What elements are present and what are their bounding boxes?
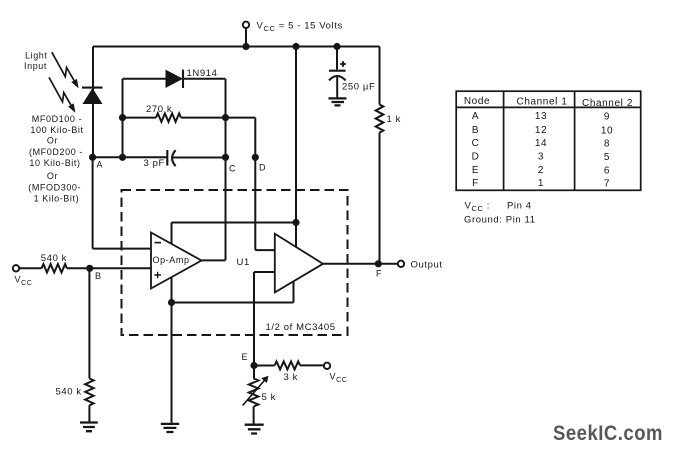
svg-text:D: D	[472, 152, 480, 163]
svg-text:(MFOD300-: (MFOD300-	[28, 183, 81, 193]
svg-text:Input: Input	[24, 61, 47, 71]
svg-text:3 k: 3 k	[284, 372, 298, 383]
svg-text:540 k: 540 k	[41, 253, 67, 264]
svg-text:F: F	[376, 269, 382, 279]
svg-text:1 Kilo-Bit): 1 Kilo-Bit)	[34, 193, 80, 203]
svg-text:SeekIC.com: SeekIC.com	[553, 421, 663, 445]
svg-text:9: 9	[604, 112, 610, 123]
svg-text:D: D	[259, 163, 266, 173]
svg-text:E: E	[242, 352, 249, 362]
svg-text:2: 2	[538, 165, 544, 176]
svg-text:(MF0D200 -: (MF0D200 -	[29, 147, 83, 157]
svg-text:270 k: 270 k	[146, 104, 172, 115]
svg-text:1: 1	[538, 178, 544, 189]
svg-text:5 k: 5 k	[262, 392, 276, 403]
svg-text:1N914: 1N914	[187, 68, 218, 79]
svg-text:C: C	[229, 164, 236, 174]
svg-text:C: C	[472, 138, 480, 149]
svg-text:Op-Amp: Op-Amp	[153, 255, 190, 265]
svg-text:Ground: Pin 11: Ground: Pin 11	[464, 215, 536, 226]
svg-text:Channel 2: Channel 2	[582, 98, 633, 109]
svg-text:10: 10	[601, 126, 613, 137]
svg-text:10 Kilo-Bit): 10 Kilo-Bit)	[29, 158, 80, 168]
svg-text:250 µF: 250 µF	[342, 82, 375, 93]
svg-text:A: A	[472, 111, 479, 122]
svg-text:6: 6	[604, 166, 610, 177]
svg-text:B: B	[472, 125, 479, 136]
svg-text:Light: Light	[25, 51, 48, 61]
svg-text:A: A	[97, 160, 104, 170]
svg-text:8: 8	[604, 139, 610, 150]
svg-text:MF0D100 -: MF0D100 -	[32, 114, 82, 124]
svg-text:1 k: 1 k	[387, 114, 401, 125]
svg-text:F: F	[472, 178, 479, 189]
svg-text:Pin 4: Pin 4	[507, 201, 532, 212]
svg-text:U1: U1	[237, 257, 250, 268]
svg-text:5: 5	[604, 152, 610, 163]
svg-text:3 pF: 3 pF	[144, 158, 165, 169]
svg-text:14: 14	[535, 138, 547, 149]
svg-text:100 Kilo-Bit: 100 Kilo-Bit	[30, 125, 83, 135]
svg-text:1/2 of MC3405: 1/2 of MC3405	[266, 322, 336, 333]
svg-text:540 k: 540 k	[56, 387, 82, 398]
svg-text:7: 7	[604, 179, 610, 190]
svg-text:12: 12	[535, 125, 547, 136]
svg-text:Channel 1: Channel 1	[517, 97, 568, 108]
svg-text:Or: Or	[47, 171, 58, 181]
svg-text:B: B	[95, 271, 102, 281]
svg-text:13: 13	[535, 111, 547, 122]
svg-text:3: 3	[538, 152, 544, 163]
svg-text:Or: Or	[47, 135, 58, 145]
svg-text:Output: Output	[411, 259, 443, 270]
svg-text:E: E	[472, 165, 479, 176]
svg-text:Node: Node	[464, 96, 490, 107]
